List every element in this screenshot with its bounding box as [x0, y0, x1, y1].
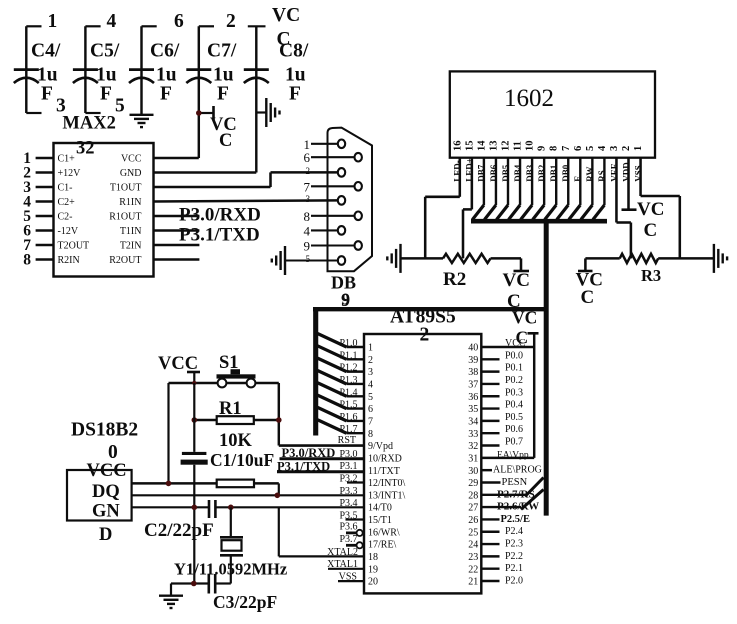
svg-text:C2+: C2+ — [58, 197, 76, 208]
svg-text:P2.6/RW: P2.6/RW — [497, 501, 539, 513]
wire LED- — [425, 158, 460, 259]
svg-text:F: F — [160, 84, 172, 105]
svg-text:C5/: C5/ — [90, 41, 120, 62]
svg-text:1u: 1u — [285, 65, 306, 86]
ground — [159, 584, 183, 609]
svg-text:-12V: -12V — [58, 226, 79, 237]
MCU left pin numbers — [368, 343, 405, 588]
svg-text:DQ: DQ — [92, 482, 120, 502]
svg-text:P3.7: P3.7 — [339, 534, 357, 545]
svg-text:6: 6 — [304, 150, 311, 165]
svg-text:40: 40 — [468, 343, 478, 354]
svg-text:27: 27 — [468, 503, 478, 514]
wire RST — [279, 435, 364, 446]
svg-text:8: 8 — [368, 429, 373, 440]
svg-text:XTAL1: XTAL1 — [327, 559, 358, 570]
switch S1 — [217, 353, 256, 387]
svg-text:23: 23 — [468, 552, 478, 563]
net label P3.1/TXD — [179, 225, 260, 246]
svg-text:5: 5 — [585, 146, 596, 151]
svg-text:P3.5: P3.5 — [339, 510, 357, 521]
svg-text:DB2: DB2 — [537, 164, 547, 182]
ground — [272, 246, 339, 275]
wire DQ to P3.3 — [132, 493, 364, 499]
pin ALE/PROG — [481, 465, 542, 476]
capacitor C3 22pF — [171, 574, 277, 612]
svg-text:15/T1: 15/T1 — [368, 515, 392, 526]
svg-text:3: 3 — [306, 194, 311, 204]
capacitor C2 22pF — [144, 500, 215, 541]
pin XTAL2 — [279, 507, 364, 558]
svg-text:LED+: LED+ — [465, 158, 475, 182]
pin PSEN — [481, 477, 527, 488]
svg-text:D: D — [99, 525, 112, 545]
pin 6 MAX232 — [23, 223, 141, 240]
DB9 holes — [338, 140, 362, 265]
wire S1 to RST — [278, 383, 280, 446]
svg-text:6: 6 — [573, 146, 584, 151]
svg-text:4: 4 — [107, 11, 117, 32]
svg-text:P3.0/RXD: P3.0/RXD — [282, 446, 336, 460]
wire C1 down — [193, 465, 195, 584]
net label P3.1/TXD — [277, 460, 364, 474]
ground — [256, 98, 279, 127]
pin VCC 40 — [481, 338, 534, 349]
svg-text:37: 37 — [468, 380, 478, 391]
svg-text:C: C — [277, 29, 291, 50]
svg-text:13/INT1\: 13/INT1\ — [368, 490, 405, 501]
node VCC at R3 — [576, 258, 603, 308]
DB9 pin 7 — [304, 179, 355, 194]
sensor U4 DS18B20 box — [67, 420, 138, 546]
pin P2.7/RS — [481, 478, 543, 501]
crystal Y1 — [174, 507, 287, 583]
DB9 pin 3 — [306, 194, 311, 204]
capacitor C1 10uF — [181, 383, 275, 470]
svg-text:P3.2: P3.2 — [339, 473, 357, 484]
svg-text:C6/: C6/ — [150, 41, 180, 62]
svg-text:5: 5 — [115, 96, 125, 117]
DB9 pin 2 — [306, 166, 311, 176]
svg-text:DB7: DB7 — [477, 164, 487, 182]
svg-text:GND: GND — [120, 168, 142, 179]
ground — [387, 244, 400, 273]
wire R1OUT — [154, 215, 200, 218]
capacitor C4 1uF — [14, 11, 66, 117]
pin 7 MAX232 — [23, 237, 141, 254]
svg-text:7: 7 — [368, 416, 373, 427]
svg-text:LED-: LED- — [453, 160, 463, 182]
pins P0.0-P0.7 — [481, 350, 523, 447]
DB9 pin 4 — [304, 223, 339, 238]
capacitor C5 1uF — [73, 11, 125, 117]
svg-text:19: 19 — [368, 564, 378, 575]
svg-text:VC: VC — [272, 5, 300, 26]
svg-text:C7/: C7/ — [207, 41, 237, 62]
svg-text:13: 13 — [488, 141, 499, 152]
wire VCC drop — [167, 383, 169, 483]
svg-text:26: 26 — [468, 515, 478, 526]
svg-text:P0.2: P0.2 — [505, 375, 523, 386]
pin P3.2 — [339, 473, 364, 484]
svg-text:P1.4: P1.4 — [339, 387, 357, 398]
svg-text:C3/22pF: C3/22pF — [213, 592, 277, 612]
svg-text:P2.0: P2.0 — [505, 576, 523, 587]
svg-text:4: 4 — [368, 380, 373, 391]
pin P3.6 — [339, 522, 362, 536]
svg-text:RST: RST — [338, 435, 356, 446]
svg-text:38: 38 — [468, 367, 478, 378]
svg-text:R1OUT: R1OUT — [109, 212, 141, 223]
svg-text:MAX2: MAX2 — [62, 114, 115, 134]
svg-text:16: 16 — [452, 141, 463, 152]
DB9 pin 8 — [304, 209, 355, 224]
svg-text:2: 2 — [306, 166, 311, 176]
svg-text:1u: 1u — [156, 65, 177, 86]
wire LED+ — [463, 158, 472, 259]
svg-text:P3.0: P3.0 — [339, 449, 357, 460]
svg-text:6: 6 — [174, 11, 184, 32]
svg-text:P1.0: P1.0 — [339, 338, 357, 349]
ground — [714, 244, 727, 273]
svg-text:VEE: VEE — [609, 163, 619, 182]
connector DB9 outline — [328, 128, 373, 310]
svg-text:VDD: VDD — [621, 162, 631, 182]
svg-text:PESN: PESN — [502, 477, 528, 488]
resistor R3 — [585, 254, 714, 285]
svg-text:P0.5: P0.5 — [505, 412, 523, 423]
svg-text:32: 32 — [468, 441, 478, 452]
svg-text:3: 3 — [368, 367, 373, 378]
pin P2.6/RW — [481, 490, 543, 513]
pin P2.5/E — [481, 514, 530, 525]
svg-text:P1.1: P1.1 — [339, 350, 357, 361]
pin VSS — [338, 572, 364, 583]
node VCC at VDD — [622, 158, 665, 241]
pin 8 MAX232 — [23, 252, 141, 269]
svg-text:2: 2 — [226, 11, 236, 32]
svg-text:R3: R3 — [641, 266, 661, 285]
svg-text:C: C — [581, 287, 595, 308]
svg-text:12: 12 — [501, 141, 512, 152]
svg-text:14: 14 — [476, 140, 487, 151]
net label P3.0/RXD — [179, 205, 261, 226]
svg-text:9: 9 — [304, 239, 311, 254]
svg-text:P0.1: P0.1 — [505, 363, 523, 374]
pin P3.5 — [339, 510, 364, 521]
node VCC at C7 — [196, 106, 237, 151]
svg-text:9/Vpd: 9/Vpd — [368, 441, 393, 452]
pin P3.4 — [339, 498, 357, 509]
DB9 pin 9 — [304, 239, 355, 254]
svg-text:35: 35 — [468, 404, 478, 415]
svg-text:T2IN: T2IN — [120, 241, 142, 252]
svg-text:R1IN: R1IN — [119, 197, 141, 208]
node VCC at R2 — [503, 258, 530, 312]
svg-text:P3.0/RXD: P3.0/RXD — [179, 205, 261, 226]
svg-text:15: 15 — [464, 141, 475, 152]
pin 3 MAX232 — [23, 179, 141, 196]
svg-text:DB4: DB4 — [513, 164, 523, 182]
svg-text:T1OUT: T1OUT — [110, 183, 142, 194]
svg-text:29: 29 — [468, 478, 478, 489]
node VCC at MCU — [512, 308, 537, 348]
svg-text:R2: R2 — [443, 269, 466, 290]
svg-text:C: C — [219, 131, 232, 151]
svg-text:DS18B2: DS18B2 — [71, 420, 138, 441]
bus vertical left — [313, 307, 318, 436]
wire R2OUT — [154, 258, 200, 261]
svg-text:P2.4: P2.4 — [505, 526, 523, 537]
wire EA to VCC — [481, 333, 538, 460]
svg-text:39: 39 — [468, 355, 478, 366]
wire R1IN to DB9 pin3 — [154, 200, 340, 201]
svg-text:P0.7: P0.7 — [505, 437, 523, 448]
svg-text:P1.2: P1.2 — [339, 363, 357, 374]
svg-text:11: 11 — [513, 141, 524, 151]
svg-text:P3.1/TXD: P3.1/TXD — [179, 225, 260, 246]
svg-text:22: 22 — [468, 564, 478, 575]
svg-text:1: 1 — [633, 146, 644, 151]
svg-text:14/T0: 14/T0 — [368, 503, 392, 514]
svg-text:C2-: C2- — [58, 212, 73, 223]
svg-text:17/RE\: 17/RE\ — [368, 540, 397, 551]
resistor R1 10K — [192, 399, 282, 451]
pin 5 MAX232 — [23, 208, 141, 225]
svg-text:DB1: DB1 — [549, 164, 559, 182]
svg-text:C2/22pF: C2/22pF — [144, 520, 214, 541]
svg-text:VC: VC — [503, 270, 530, 291]
svg-text:T2OUT: T2OUT — [58, 241, 90, 252]
svg-text:7: 7 — [304, 179, 311, 194]
svg-text:C: C — [644, 220, 658, 241]
svg-text:F: F — [289, 84, 301, 105]
capacitor C8 1uF — [244, 5, 309, 173]
wire VEE — [616, 158, 630, 259]
wire T2IN — [154, 244, 200, 247]
wire VSS — [641, 158, 680, 259]
DB9 pin 6 — [304, 150, 355, 165]
svg-text:P3.6: P3.6 — [339, 522, 357, 533]
svg-text:P2.2: P2.2 — [505, 551, 523, 562]
wire GND line with C2 — [132, 505, 364, 511]
net label P3.0/RXD — [280, 446, 365, 460]
capacitor C6 1uF — [129, 11, 184, 115]
svg-text:24: 24 — [468, 540, 478, 551]
svg-text:4: 4 — [304, 223, 311, 238]
svg-text:1: 1 — [48, 11, 58, 32]
svg-text:8: 8 — [23, 252, 31, 269]
svg-text:20: 20 — [368, 577, 378, 588]
svg-text:4: 4 — [597, 145, 608, 151]
svg-text:ALE\PROG: ALE\PROG — [493, 465, 542, 476]
DB9 pin 1 — [304, 137, 339, 152]
svg-text:1602: 1602 — [504, 85, 554, 112]
svg-text:EA\Vpp: EA\Vpp — [497, 450, 529, 460]
svg-text:10: 10 — [525, 141, 536, 152]
node VCC reset — [158, 354, 200, 383]
svg-text:9: 9 — [537, 146, 548, 151]
svg-text:P0.6: P0.6 — [505, 424, 523, 435]
svg-text:E: E — [573, 176, 583, 182]
pin 4 MAX232 — [23, 194, 141, 211]
svg-text:30: 30 — [468, 466, 478, 477]
svg-text:P0.0: P0.0 — [505, 350, 523, 361]
svg-text:P1.6: P1.6 — [339, 412, 357, 423]
svg-text:RS: RS — [597, 170, 607, 182]
microcontroller U3 AT89S52 box — [364, 307, 481, 594]
svg-text:R2IN: R2IN — [58, 255, 80, 266]
svg-text:F: F — [217, 84, 229, 105]
pin XTAL1 — [327, 559, 364, 570]
svg-text:VC: VC — [637, 199, 664, 220]
svg-text:F: F — [100, 84, 112, 105]
svg-text:33: 33 — [468, 429, 478, 440]
svg-text:P0.3: P0.3 — [505, 387, 523, 398]
pin P3.7 — [339, 534, 362, 548]
svg-text:16/WR\: 16/WR\ — [368, 527, 400, 538]
svg-text:DB0: DB0 — [561, 164, 571, 182]
svg-text:2: 2 — [420, 325, 430, 346]
wire GND — [154, 171, 257, 174]
svg-text:34: 34 — [468, 416, 478, 427]
svg-text:36: 36 — [468, 392, 478, 403]
svg-text:P1.5: P1.5 — [339, 400, 357, 411]
MCU right pin numbers — [468, 343, 478, 588]
svg-text:1u: 1u — [213, 65, 234, 86]
wire P1 slants — [318, 334, 365, 436]
svg-text:C1/10uF: C1/10uF — [210, 450, 274, 470]
svg-text:Y1/11.0592MHz: Y1/11.0592MHz — [174, 560, 287, 579]
pins P2.4-P2.0 — [481, 526, 523, 586]
svg-text:P2.5/E: P2.5/E — [501, 514, 530, 525]
svg-text:XTAL2: XTAL2 — [327, 547, 358, 558]
svg-text:VCC: VCC — [121, 154, 142, 165]
svg-text:R1: R1 — [219, 399, 242, 419]
svg-text:VCC: VCC — [87, 461, 127, 481]
svg-text:31: 31 — [468, 453, 478, 464]
pin P3.3 — [339, 486, 357, 497]
svg-text:32: 32 — [76, 139, 95, 159]
svg-text:6: 6 — [368, 404, 373, 415]
svg-text:2: 2 — [368, 355, 373, 366]
resistor pull-up — [132, 480, 279, 496]
wire reset rail — [169, 381, 279, 385]
DB9 pin 5 — [306, 254, 311, 264]
svg-text:18: 18 — [368, 552, 378, 563]
svg-text:C4/: C4/ — [31, 41, 61, 62]
svg-text:1u: 1u — [96, 65, 117, 86]
svg-text:8: 8 — [549, 146, 560, 151]
svg-text:VSS: VSS — [339, 572, 357, 583]
wire LCD data slants — [472, 158, 604, 220]
bus horizontal — [313, 307, 549, 311]
svg-text:7: 7 — [561, 146, 572, 151]
wire VCC — [154, 157, 199, 160]
svg-text:DB3: DB3 — [525, 164, 535, 182]
pin 2 MAX232 — [23, 165, 141, 182]
svg-text:2: 2 — [621, 146, 632, 151]
svg-text:P3.1: P3.1 — [339, 461, 357, 472]
svg-text:DB6: DB6 — [489, 164, 499, 182]
svg-text:25: 25 — [468, 527, 478, 538]
svg-text:DB5: DB5 — [501, 164, 511, 182]
svg-text:9: 9 — [342, 290, 351, 309]
ground — [130, 115, 154, 127]
svg-text:10K: 10K — [219, 431, 253, 451]
svg-text:P2.3: P2.3 — [505, 539, 523, 550]
LCD pin labels — [453, 158, 644, 182]
svg-text:P0.4: P0.4 — [505, 400, 523, 411]
svg-text:5: 5 — [306, 254, 311, 264]
pin 1 MAX232 — [23, 150, 142, 167]
svg-text:10/RXD: 10/RXD — [368, 453, 402, 464]
wire T1IN — [154, 229, 200, 232]
svg-text:P1.3: P1.3 — [339, 375, 357, 386]
svg-text:P3.1/TXD: P3.1/TXD — [277, 460, 330, 474]
capacitor C7 1uF — [186, 11, 237, 158]
svg-text:12/INT0\: 12/INT0\ — [368, 478, 405, 489]
svg-text:C1-: C1- — [58, 183, 73, 194]
resistor R2 — [401, 254, 522, 290]
svg-text:3: 3 — [609, 146, 620, 151]
svg-text:VC: VC — [512, 308, 537, 328]
bus bar — [471, 219, 607, 224]
bus vertical right — [544, 219, 549, 516]
svg-text:R2OUT: R2OUT — [109, 255, 141, 266]
wire T1OUT to DB9 pin2 — [154, 172, 340, 187]
svg-text:RW: RW — [585, 167, 595, 182]
svg-text:P1.7: P1.7 — [339, 424, 357, 435]
svg-text:0: 0 — [108, 442, 118, 463]
svg-text:+12V: +12V — [58, 168, 82, 179]
svg-text:28: 28 — [468, 490, 478, 501]
svg-text:C: C — [516, 328, 529, 348]
op-amp U1 MAX232 box — [54, 114, 154, 277]
label 9 — [342, 290, 351, 309]
LCD U2 1602 box — [450, 71, 655, 157]
LCD pin numbers 16-1 — [452, 140, 644, 151]
svg-text:11/TXT: 11/TXT — [368, 466, 400, 477]
svg-text:8: 8 — [304, 209, 311, 224]
svg-text:1u: 1u — [37, 65, 58, 86]
svg-text:21: 21 — [468, 577, 478, 588]
svg-text:1: 1 — [368, 343, 373, 354]
svg-text:T1IN: T1IN — [120, 226, 142, 237]
svg-text:GN: GN — [92, 502, 120, 522]
svg-text:5: 5 — [368, 392, 373, 403]
svg-text:F: F — [41, 84, 53, 105]
svg-text:C1+: C1+ — [58, 154, 76, 165]
svg-text:VSS: VSS — [633, 165, 643, 182]
svg-text:P2.1: P2.1 — [505, 563, 523, 574]
